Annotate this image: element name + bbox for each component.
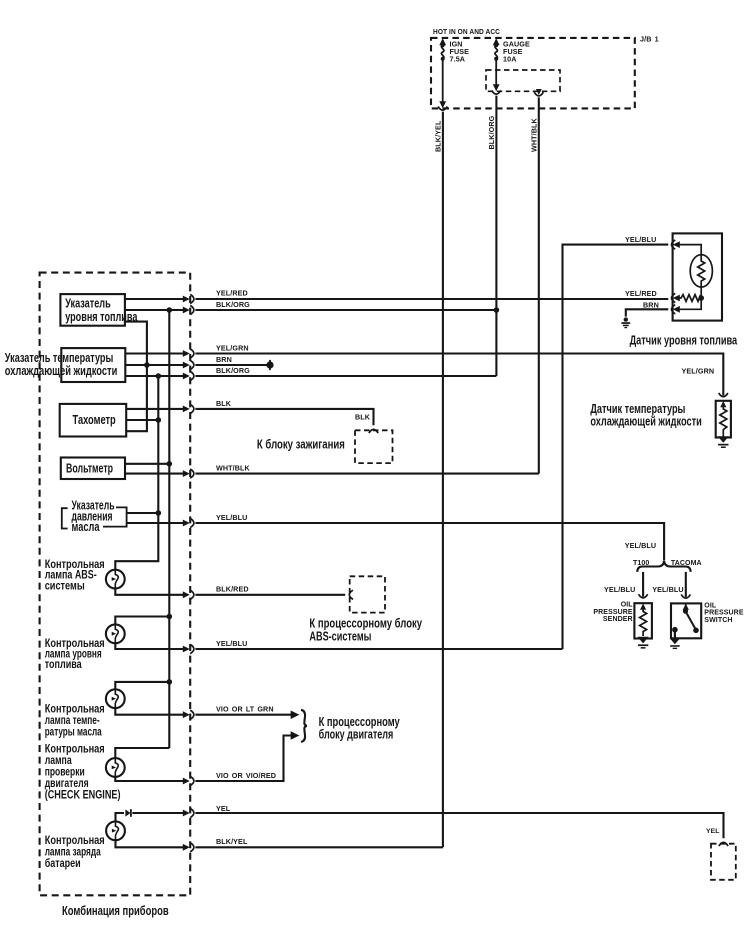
junction block J/B 1 outer dashed box [431, 38, 635, 109]
ignition block dashed box (К блоку зажигания) [355, 430, 393, 463]
svg-text:Контрольная: Контрольная [45, 703, 105, 715]
connector fork coolant sensor [719, 393, 728, 397]
ground BRN [621, 317, 630, 328]
wire YEL/BLU from fuel sender top [563, 245, 669, 649]
svg-text:VIO OR VIO/RED: VIO OR VIO/RED [216, 771, 276, 780]
arrow inside oil pressure sender [640, 603, 646, 609]
svg-text:масла: масла [72, 519, 101, 534]
coolant temperature sensor box [716, 401, 731, 438]
svg-text:OIL: OIL [704, 602, 717, 609]
wire branch to oil pressure sender [642, 572, 644, 597]
svg-text:YEL/BLU: YEL/BLU [604, 585, 635, 594]
wire VIO OR LT GRN to engine processor [195, 714, 292, 716]
oil temperature warning lamp [106, 689, 125, 708]
alternator dashed box bottom right [711, 844, 736, 880]
wire BRN stub with terminal [195, 364, 267, 366]
label Указатель давления масла [72, 497, 115, 534]
engine processor brace [301, 710, 307, 742]
connector fork into ignition block [369, 429, 378, 433]
svg-text:BLK: BLK [355, 413, 371, 422]
svg-text:Тахометр: Тахометр [73, 412, 116, 427]
svg-text:BLK: BLK [216, 399, 232, 408]
svg-text:Контрольная: Контрольная [45, 835, 105, 847]
svg-text:SWITCH: SWITCH [704, 617, 732, 624]
svg-text:BRN: BRN [643, 300, 659, 309]
svg-text:проверки: проверки [45, 767, 85, 779]
oil pressure gauge bracket symbol [62, 507, 127, 528]
svg-text:ABS-системы: ABS-системы [309, 628, 371, 643]
wire oil temp lamp output VIO OR LT GRN [115, 708, 194, 719]
svg-text:BLK/ORG: BLK/ORG [487, 115, 496, 149]
svg-text:лампа темпе-: лампа темпе- [45, 715, 100, 727]
svg-text:YEL/RED: YEL/RED [625, 289, 657, 298]
svg-text:двигателя: двигателя [45, 778, 89, 790]
wire BLK/RED to ABS block [195, 594, 345, 596]
fuel level warning lamp [106, 624, 125, 643]
wire BLK/ORG vertical feed [495, 96, 497, 376]
wire BRN to ground [626, 309, 669, 316]
svg-text:лампа: лампа [45, 755, 72, 767]
svg-text:охлаждающей жидкости: охлаждающей жидкости [590, 414, 701, 429]
svg-text:BLK/YEL: BLK/YEL [434, 120, 443, 152]
arrow inside coolant sensor [720, 401, 726, 407]
arrow into engine brace upper [291, 710, 300, 719]
svg-text:ратуры масла: ратуры масла [45, 726, 102, 738]
wire YEL/RED to fuel sender [195, 298, 668, 300]
svg-text:HOT IN ON AND ACC: HOT IN ON AND ACC [433, 27, 500, 36]
connector fork oil pressure sender [639, 594, 648, 598]
wire ABS lamp output BLK/RED [115, 589, 194, 600]
svg-text:BRN: BRN [216, 355, 232, 364]
label Указатель температуры охлаждающей жидкости [5, 350, 118, 378]
svg-text:топлива: топлива [45, 659, 82, 671]
svg-text:YEL: YEL [706, 828, 720, 835]
wire BLK/ORG to feed junction [195, 309, 496, 311]
svg-text:батареи: батареи [45, 858, 81, 870]
svg-text:BLK/RED: BLK/RED [216, 585, 249, 594]
junction dot BLK/ORG at fuel gauge feed [494, 307, 500, 313]
junction dot rail C at oil temp lamp [167, 679, 173, 685]
wire WHT/BLK to feed corner [195, 473, 538, 475]
junction dot rail A at BRN wire [144, 362, 150, 368]
svg-text:(CHECK ENGINE): (CHECK ENGINE) [45, 790, 121, 802]
svg-text:YEL/BLU: YEL/BLU [625, 541, 656, 550]
svg-text:блоку двигателя: блоку двигателя [319, 727, 394, 742]
svg-text:YEL/RED: YEL/RED [216, 289, 248, 298]
wire check engine lamp output VIO OR VIO/RED [115, 776, 194, 785]
wire temp gauge pin1 YEL/GRN [125, 349, 194, 358]
wire YEL/BLU fuel lamp to sensor rail [195, 648, 562, 650]
svg-text:системы: системы [45, 580, 85, 592]
junction dot rail B at oil gauge pin1 [156, 510, 162, 516]
svg-text:J/B 1: J/B 1 [640, 35, 659, 44]
svg-text:PRESSURE: PRESSURE [593, 609, 633, 616]
rail C vertical (lamp feed) [168, 310, 170, 748]
fuel sender internal wire to float coil [680, 245, 702, 255]
wire fuel lamp top to rail C [115, 617, 169, 625]
junction dot rail B at tach pin2 [156, 417, 162, 423]
svg-text:лампа заряда: лампа заряда [45, 846, 101, 858]
wire tach pin1 BLK [126, 404, 194, 413]
wire voltmeter pin2 WHT/BLK [125, 469, 194, 478]
ground lead inside oil pressure switch [672, 627, 678, 638]
oil pressure sender box [634, 603, 652, 638]
label Указатель уровня топлива [65, 296, 138, 324]
voltmeter box [61, 458, 125, 480]
label Контрольная лампа уровня топлива [45, 638, 105, 671]
battery charge warning lamp [106, 821, 125, 840]
svg-text:10A: 10A [503, 55, 517, 64]
wire temp gauge pin2 BRN [125, 360, 194, 369]
ground oil pressure sender [638, 637, 649, 649]
junction dot fuel sender [698, 295, 704, 301]
label Датчик температуры охлаждающей жидкости [590, 401, 701, 429]
connector fork fuel sender BRN [672, 305, 676, 314]
wire YEL/GRN to coolant sensor [195, 354, 723, 396]
label К процессорному блоку ABS-системы [309, 616, 422, 644]
label Контрольная лампа проверки двигателя (CHECK ENGINE) [45, 744, 121, 802]
ground oil pressure switch [670, 638, 680, 649]
svg-text:WHT/BLK: WHT/BLK [529, 117, 538, 152]
connector fork into ABS block [349, 590, 353, 599]
connector below inner box for BLK/ORG wire [492, 90, 501, 94]
wire oil temp lamp top to rail C [115, 682, 169, 689]
label OIL PRESSURE SENDER [593, 602, 633, 623]
wire oil gauge pin2 YEL/BLU [127, 518, 194, 527]
svg-text:YEL/BLU: YEL/BLU [216, 639, 247, 648]
switch contact and blade [683, 604, 699, 634]
fuse GAUGE FUSE 10A [493, 38, 500, 91]
label К процессорному блоку двигателя [319, 714, 401, 742]
svg-text:7.5A: 7.5A [450, 55, 466, 64]
resistor inside ellipse [698, 255, 705, 298]
wire voltmeter pin1 to rail C [125, 463, 169, 465]
wire battery lamp top to YEL with diode [116, 808, 194, 821]
svg-text:WHT/BLK: WHT/BLK [216, 464, 251, 473]
diode in battery lamp feed [125, 809, 131, 817]
rail B vertical [115, 376, 158, 570]
arrow inside fuel sender BRN [673, 306, 680, 313]
wire branch to oil pressure switch [685, 572, 687, 597]
rail A from fuel gauge bottom pin [125, 322, 147, 432]
junction dot rail C at voltmeter pin1 [167, 461, 173, 467]
connector at J/B bottom for BLK/YEL wire [438, 101, 447, 110]
ground coolant sensor [718, 436, 729, 448]
wire battery lamp output BLK/YEL [116, 840, 194, 852]
connector fork fuel sender YEL/BLU [672, 240, 676, 249]
tachometer box [60, 404, 127, 437]
wire fuel gauge pin2 BLK/ORG [125, 305, 194, 314]
junction dot rail C at fuel lamp [167, 614, 173, 620]
svg-text:охлаждающей жидкости: охлаждающей жидкости [5, 363, 118, 378]
connector below inner box for WHT/BLK wire [534, 89, 543, 96]
wire WHT/BLK vertical feed [538, 97, 540, 473]
svg-text:Датчик уровня топлива: Датчик уровня топлива [630, 333, 738, 348]
brace T100 TACOMA [637, 561, 690, 572]
connector fork fuel sender YEL/RED [672, 293, 676, 302]
resistor inside coolant sensor [720, 406, 727, 437]
svg-text:YEL/GRN: YEL/GRN [216, 344, 249, 353]
label Контрольная лампа ABS-системы [45, 559, 105, 592]
svg-text:BLK/YEL: BLK/YEL [216, 837, 248, 846]
svg-text:BLK/ORG: BLK/ORG [216, 366, 250, 375]
wire rail C into check engine lamp top [115, 748, 169, 758]
svg-text:YEL/GRN: YEL/GRN [682, 366, 715, 375]
oil pressure switch box [671, 603, 701, 638]
variable resistor horizontal in fuel sender [680, 295, 702, 302]
svg-text:YEL/BLU: YEL/BLU [216, 513, 247, 522]
wire BLK to ignition block [195, 409, 373, 425]
wire YEL to alternator block [195, 813, 723, 838]
wire temp gauge pin3 BLK/ORG [125, 371, 194, 380]
arrow inside oil pressure switch [683, 604, 689, 610]
svg-text:BLK/ORG: BLK/ORG [216, 300, 250, 309]
svg-text:VIO OR LT GRN: VIO OR LT GRN [216, 705, 274, 714]
arrow into engine brace lower [291, 731, 300, 740]
svg-text:OIL: OIL [621, 602, 634, 609]
wire BLK/YEL battery to feed corner [195, 846, 443, 848]
fuel sender coil ellipse [690, 255, 712, 287]
arrow inside fuel sender YEL/RED [673, 295, 680, 302]
wire BLK/YEL vertical feed from J/B [442, 112, 444, 848]
resistor inside oil pressure sender [640, 608, 647, 636]
fuel level gauge box [60, 294, 125, 326]
svg-text:YEL: YEL [216, 804, 231, 813]
svg-text:SENDER: SENDER [603, 616, 633, 623]
wire VIO OR VIO/RED to engine processor [195, 736, 292, 782]
junction dot rail C top at fuel gauge pin2 [167, 307, 173, 313]
J/B inner connector dashed box [486, 70, 560, 91]
label Контрольная лампа заряда батареи [45, 835, 105, 870]
terminal dot BRN [266, 360, 273, 370]
wire fuel lamp output YEL/BLU [115, 643, 194, 654]
connector fork into alternator block [719, 842, 728, 846]
fuel level sender box [673, 233, 722, 320]
wire tach pin2 to rail B [126, 419, 158, 421]
check engine warning lamp [106, 758, 125, 777]
fuse IGN FUSE 7.5A [439, 38, 446, 106]
wire fuel gauge pin1 YEL/RED [125, 294, 194, 303]
wire YEL/BLU oil gauge to sender branch [195, 523, 664, 560]
connector fork oil pressure switch [681, 594, 690, 598]
ABS processor dashed box [350, 576, 385, 612]
svg-text:YEL/BLU: YEL/BLU [625, 235, 656, 244]
svg-text:К блоку зажигания: К блоку зажигания [257, 436, 345, 451]
junction dot rail B top at temp gauge pin3 [156, 373, 162, 379]
svg-text:Комбинация приборов: Комбинация приборов [62, 903, 169, 918]
label OIL PRESSURE SWITCH [704, 602, 744, 623]
svg-text:YEL/BLU: YEL/BLU [652, 585, 683, 594]
wire BLK/ORG temp to feed corner [195, 375, 496, 377]
svg-text:Контрольная: Контрольная [45, 744, 105, 756]
svg-text:PRESSURE: PRESSURE [704, 610, 744, 617]
coolant temperature gauge box [61, 348, 125, 382]
label Контрольная лампа температуры масла [45, 703, 105, 738]
arrow inside fuel sender YEL/BLU [673, 241, 680, 248]
wire oil gauge pin1 to rail B [127, 512, 159, 514]
wire BRN inside fuel sender [680, 298, 702, 309]
ABS warning lamp [106, 570, 125, 589]
svg-text:Вольтметр: Вольтметр [66, 460, 113, 475]
instrument cluster dashed box (Комбинация приборов) [40, 273, 191, 896]
